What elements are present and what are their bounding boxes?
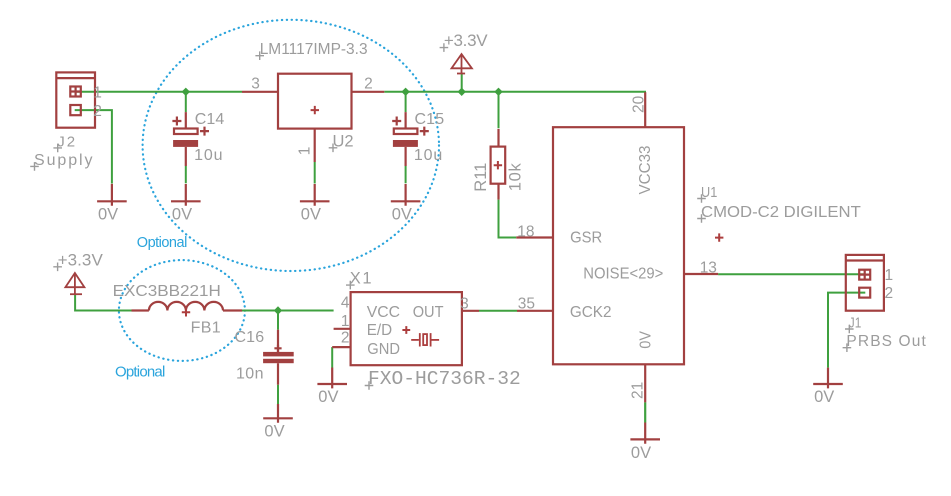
svg-text:2: 2	[364, 76, 373, 93]
svg-text:GCK2: GCK2	[570, 304, 612, 321]
svg-text:0V: 0V	[814, 388, 834, 406]
svg-text:1: 1	[93, 85, 102, 102]
svg-text:18: 18	[517, 223, 534, 240]
svg-text:C16: C16	[235, 329, 265, 346]
svg-text:0V: 0V	[172, 205, 192, 223]
svg-text:+3.3V: +3.3V	[444, 31, 488, 50]
svg-text:0V: 0V	[98, 205, 118, 223]
svg-text:3: 3	[460, 296, 469, 313]
svg-text:CMOD-C2 DIGILENT: CMOD-C2 DIGILENT	[701, 204, 861, 221]
svg-text:0V: 0V	[392, 205, 412, 223]
svg-text:4: 4	[341, 295, 350, 312]
svg-text:0V: 0V	[631, 444, 651, 462]
svg-text:R11: R11	[472, 163, 490, 192]
svg-text:1: 1	[341, 313, 350, 330]
svg-text:0V: 0V	[301, 205, 321, 223]
svg-text:0V: 0V	[264, 422, 284, 440]
svg-text:J1: J1	[849, 315, 862, 332]
svg-text:Optional: Optional	[137, 235, 188, 251]
svg-text:EXC3BB221H: EXC3BB221H	[113, 283, 221, 300]
svg-text:35: 35	[518, 296, 535, 313]
svg-text:U1: U1	[701, 185, 717, 201]
svg-text:J2: J2	[57, 133, 75, 150]
svg-text:FB1: FB1	[191, 320, 221, 337]
svg-text:2: 2	[341, 330, 350, 347]
svg-text:GSR: GSR	[570, 230, 602, 247]
svg-text:1: 1	[885, 267, 894, 284]
svg-text:VCC33: VCC33	[637, 145, 654, 194]
svg-text:OUT: OUT	[413, 304, 444, 321]
svg-text:+3.3V: +3.3V	[58, 250, 104, 269]
svg-text:3: 3	[251, 76, 260, 93]
svg-text:10n: 10n	[236, 366, 264, 383]
svg-text:2: 2	[885, 285, 894, 302]
svg-text:LM1117IMP-3.3: LM1117IMP-3.3	[260, 41, 368, 58]
svg-text:PRBS Out: PRBS Out	[846, 333, 926, 350]
svg-text:X1: X1	[350, 270, 372, 288]
svg-text:0V: 0V	[318, 388, 338, 406]
svg-text:GND: GND	[367, 341, 400, 358]
svg-text:NOISE<29>: NOISE<29>	[583, 266, 663, 283]
svg-text:Supply: Supply	[34, 152, 93, 169]
svg-text:C14: C14	[195, 111, 225, 128]
svg-text:10k: 10k	[507, 163, 525, 192]
svg-text:E/D: E/D	[367, 322, 392, 339]
svg-text:20: 20	[631, 95, 648, 113]
svg-text:0V: 0V	[638, 331, 655, 349]
svg-text:Optional: Optional	[115, 363, 165, 380]
svg-text:1: 1	[297, 147, 314, 156]
svg-text:10u: 10u	[194, 147, 222, 164]
svg-text:VCC: VCC	[367, 304, 400, 321]
svg-text:13: 13	[700, 260, 717, 277]
svg-text:C15: C15	[415, 111, 445, 128]
svg-text:U2: U2	[333, 132, 354, 150]
svg-text:FXO-HC736R-32: FXO-HC736R-32	[368, 368, 521, 390]
svg-text:21: 21	[630, 382, 647, 399]
svg-text:2: 2	[93, 103, 102, 120]
svg-text:10u: 10u	[414, 147, 442, 164]
